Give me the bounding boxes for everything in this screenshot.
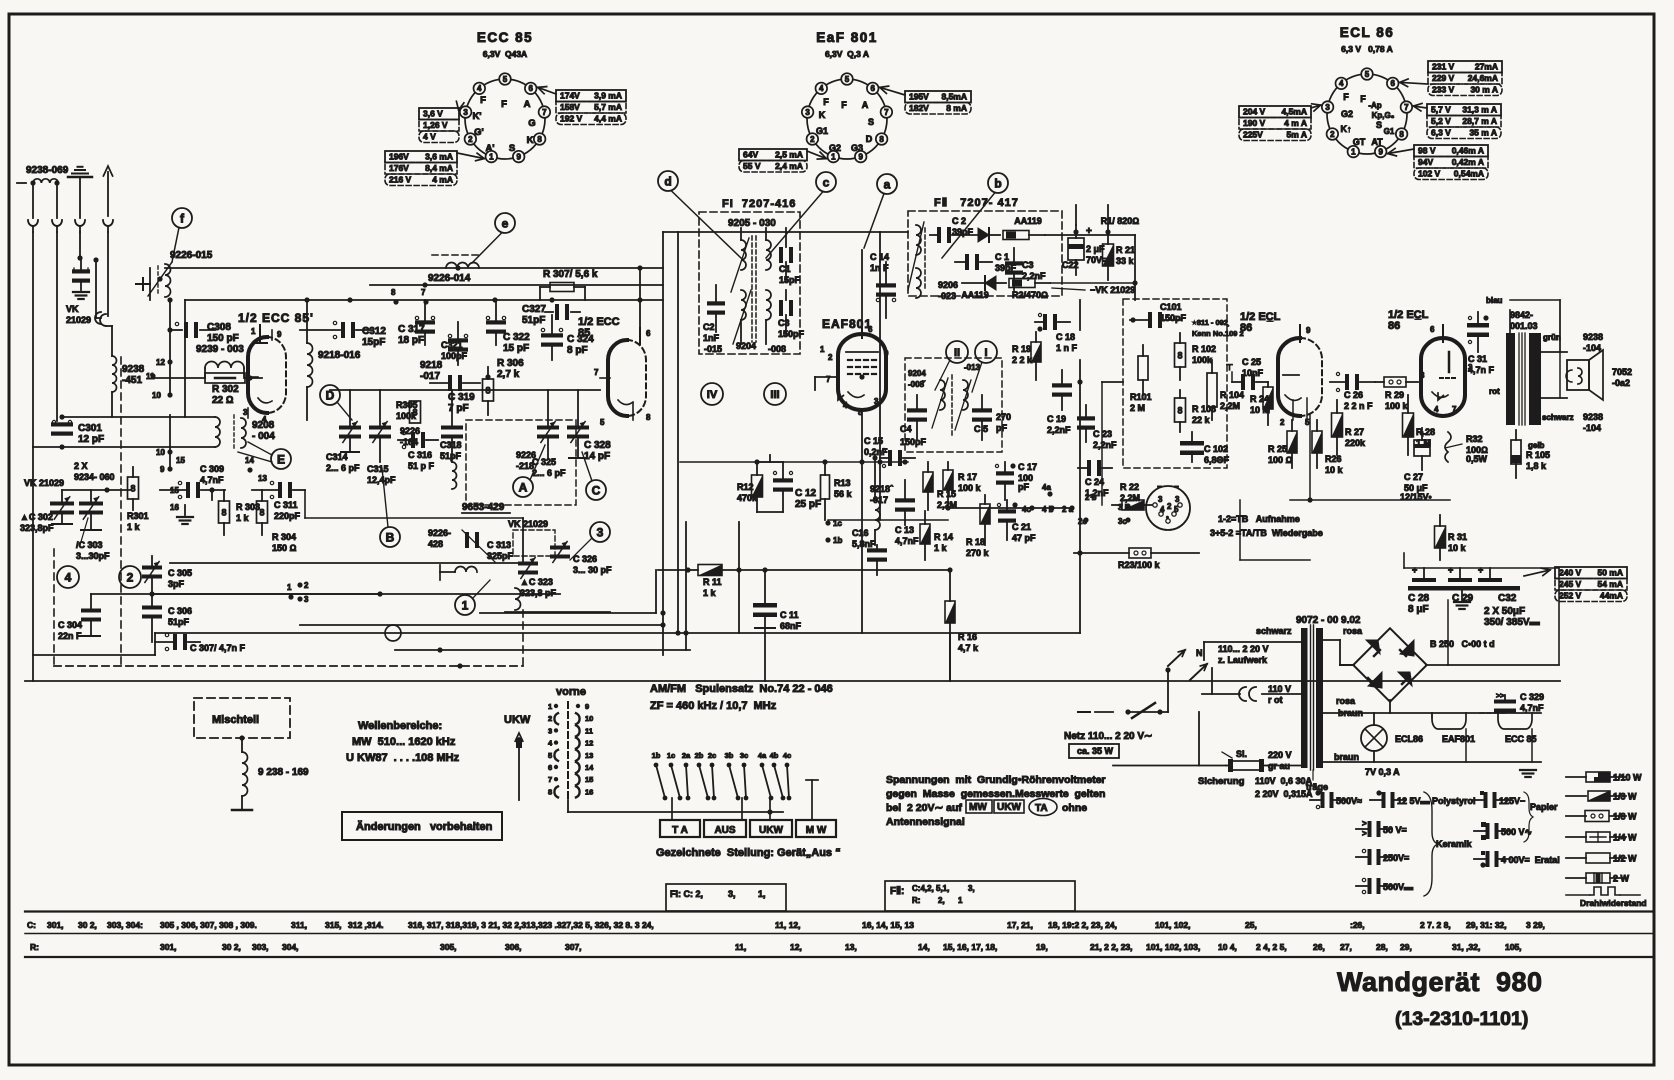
svg-text:110 V: 110 V [1268, 684, 1291, 694]
resistor R23 [1129, 548, 1151, 558]
svg-text:6,3 V: 6,3 V [1431, 128, 1451, 138]
svg-text:54 mA: 54 mA [1597, 579, 1623, 589]
svg-text:8: 8 [1177, 350, 1182, 360]
resistor R104 [1207, 373, 1217, 407]
svg-text:44mA: 44mA [1600, 591, 1623, 601]
svg-text:1 k: 1 k [127, 522, 141, 532]
svg-text:2 X: 2 X [74, 461, 88, 471]
svg-text:R 11: R 11 [703, 577, 722, 587]
wire fi top [663, 231, 880, 233]
svg-text:2,7 k: 2,7 k [497, 369, 520, 380]
tube half ECC85 a [248, 337, 267, 413]
IF transformer FII box [908, 211, 1062, 296]
svg-text:4: 4 [1339, 79, 1344, 88]
legend cap 500Vminus [1486, 823, 1490, 839]
capacitor C12 [773, 478, 793, 482]
ferrite rod coil [215, 417, 220, 447]
svg-text:9 238 - 169: 9 238 - 169 [258, 767, 309, 778]
wire audio in [1102, 381, 1123, 383]
arrow to pin 3 [1311, 105, 1321, 108]
svg-text:350/ 385V▬: 350/ 385V▬ [1484, 617, 1540, 628]
svg-text:-451: -451 [122, 375, 142, 386]
svg-text:AA119: AA119 [1014, 216, 1042, 226]
legend res 1/8W [1566, 815, 1586, 817]
svg-text:7: 7 [884, 108, 889, 117]
svg-text:6: 6 [868, 325, 873, 334]
voltage table ECL86 right top [1428, 61, 1502, 73]
svg-text:11: 11 [585, 726, 593, 735]
capacitor C3 fii [1005, 261, 1023, 265]
svg-text:8: 8 [259, 507, 264, 517]
svg-text:C 307/ 4,7n F: C 307/ 4,7n F [190, 643, 246, 653]
svg-text:4: 4 [65, 570, 72, 584]
svg-text:9: 9 [858, 152, 863, 161]
svg-text:-164: -164 [400, 437, 418, 447]
svg-text:R:: R: [912, 896, 920, 905]
capacitor C3 fi [779, 300, 783, 316]
svg-text:AT: AT [1371, 137, 1383, 147]
svg-text:6: 6 [528, 84, 533, 93]
resistor R101 [1138, 356, 1148, 380]
svg-text:ECC 85: ECC 85 [477, 30, 533, 45]
capacitor C321 [448, 338, 468, 342]
svg-text:ZF = 460 kHz / 10,7 MHz: ZF = 460 kHz / 10,7 MHz [650, 700, 777, 712]
svg-text:Wandgerät 980: Wandgerät 980 [1337, 967, 1543, 997]
svg-text:312 ,314.: 312 ,314. [348, 920, 383, 930]
svg-text:3b: 3b [725, 751, 734, 760]
svg-text:C 11: C 11 [780, 610, 799, 620]
earth symbol [68, 176, 92, 179]
svg-text:11, 12,: 11, 12, [775, 920, 801, 930]
svg-text:174V: 174V [560, 91, 580, 101]
svg-text:9226: 9226 [400, 426, 420, 436]
svg-text:Gezeichnete Stellung: Gerät„A: Gezeichnete Stellung: Gerät„Aus “ [656, 847, 841, 859]
svg-text:21029: 21029 [66, 315, 91, 325]
svg-text:6: 6 [548, 763, 552, 772]
capacitor C4 [907, 408, 927, 412]
trimmer C328 [567, 426, 589, 430]
svg-text:C32: C32 [1498, 593, 1517, 604]
svg-text:C 24: C 24 [1085, 477, 1104, 487]
button AUS [704, 820, 746, 837]
arrow to pin 3 [458, 108, 460, 110]
capacitor C102 [1180, 441, 1204, 446]
svg-text:C16: C16 [852, 528, 869, 538]
svg-text:rosa: rosa [1343, 626, 1363, 636]
svg-text:R 14: R 14 [934, 532, 953, 542]
svg-text:C 14: C 14 [870, 252, 889, 262]
wire bus 2 [370, 284, 663, 286]
legend res 1/3W [1566, 795, 1586, 797]
svg-text:A: A [524, 99, 531, 110]
svg-text:pF: pF [996, 423, 1007, 433]
svg-text:6: 6 [1430, 325, 1435, 334]
capacitor C319 [448, 375, 452, 391]
svg-text:R 307/ 5,6 k: R 307/ 5,6 k [543, 269, 598, 280]
svg-text:C 304: C 304 [58, 620, 82, 630]
svg-text:9234- 060: 9234- 060 [74, 472, 115, 482]
svg-text:(13-2310-1101): (13-2310-1101) [1395, 1008, 1528, 1030]
voltage table ECL86 right mid [1427, 104, 1501, 116]
svg-text:AA119: AA119 [961, 290, 989, 300]
node C [586, 480, 606, 500]
svg-text:B: B [386, 530, 395, 544]
svg-text:10 k: 10 k [1448, 543, 1467, 553]
svg-text:C 28: C 28 [1408, 593, 1430, 604]
svg-text:G2: G2 [829, 143, 841, 153]
svg-text:8: 8 [1177, 405, 1182, 415]
svg-text:C3: C3 [1022, 260, 1034, 270]
svg-text:1: 1 [1351, 147, 1356, 156]
svg-text:C:: C: [27, 920, 36, 930]
svg-text:AUS: AUS [714, 825, 735, 836]
svg-text:bei 2 20V∼ auf: bei 2 20V∼ auf [886, 802, 962, 814]
dashed box tuner [53, 549, 55, 666]
coil 9208-004 [247, 408, 249, 418]
svg-text:9226-014: 9226-014 [428, 273, 471, 284]
svg-text:C301: C301 [78, 423, 102, 434]
svg-text:3: 3 [1158, 495, 1163, 504]
svg-text:15 pF: 15 pF [503, 343, 529, 354]
svg-text:C101: C101 [1160, 302, 1182, 312]
capacitor C317 [415, 320, 435, 324]
svg-text:5,2 V: 5,2 V [1431, 116, 1451, 126]
B+ rail [1404, 567, 1559, 569]
svg-text:ECL 86: ECL 86 [1340, 25, 1395, 40]
svg-text:5: 5 [845, 75, 850, 84]
svg-text:0,46m A: 0,46m A [1452, 146, 1484, 156]
svg-text:2,2M: 2,2M [1120, 493, 1140, 503]
svg-text:47 pF: 47 pF [1012, 533, 1036, 543]
svg-text:1b: 1b [833, 536, 842, 545]
node b [988, 173, 1008, 193]
svg-text:86: 86 [1388, 320, 1400, 332]
svg-text:3: 3 [805, 108, 810, 117]
svg-text:F: F [823, 97, 829, 107]
svg-text:R 22: R 22 [1120, 482, 1139, 492]
svg-text:2... 6 pF: 2... 6 pF [326, 463, 360, 473]
svg-text:blau: blau [1486, 296, 1503, 305]
wire top bus [165, 267, 663, 269]
capacitor C27 [1414, 440, 1430, 456]
svg-text:1: 1 [831, 152, 836, 161]
svg-text:1,8 k: 1,8 k [1526, 461, 1547, 471]
svg-text:5: 5 [503, 75, 508, 84]
svg-text:1,2nF: 1,2nF [1085, 488, 1109, 498]
svg-text:A: A [862, 100, 869, 110]
audio bottom wires [1290, 499, 1450, 501]
resistor R19 [1031, 342, 1041, 362]
svg-text:C 311: C 311 [274, 500, 298, 510]
svg-text:G1: G1 [1384, 127, 1395, 136]
svg-text:C3: C3 [778, 318, 790, 328]
capacitor C301 [51, 422, 73, 426]
svg-text:R 27: R 27 [1345, 427, 1364, 437]
node 3 circ [590, 522, 610, 542]
coil mw1 [455, 567, 477, 573]
svg-text:250V=: 250V= [1383, 853, 1409, 863]
svg-text:18 pF: 18 pF [398, 335, 424, 346]
wire 880 down [879, 262, 881, 520]
svg-text:24,6mA: 24,6mA [1468, 73, 1498, 83]
svg-text:rot: rot [1489, 387, 1500, 396]
svg-text:9072 - 00 9.02: 9072 - 00 9.02 [1296, 615, 1361, 626]
voltage table ECC85 left [419, 108, 459, 120]
svg-text:R101: R101 [1130, 392, 1152, 402]
resistor R2 470 [1009, 279, 1035, 288]
svg-text:˃˃: ˃˃ [1496, 693, 1504, 700]
svg-text:6,8ʘF: 6,8ʘF [1204, 455, 1230, 465]
svg-text:220k: 220k [1345, 438, 1366, 448]
svg-text:G: G [528, 118, 535, 129]
svg-text:-Ap: -Ap [1368, 101, 1381, 110]
svg-text:51 p F: 51 p F [408, 461, 435, 471]
svg-text:150pF: 150pF [778, 329, 805, 339]
svg-text:3: 3 [597, 525, 604, 539]
dashed bus 666 [54, 665, 523, 667]
svg-text:7: 7 [542, 108, 547, 117]
svg-text:100 Ω: 100 Ω [1268, 455, 1293, 465]
svg-text:5m A: 5m A [1287, 130, 1307, 140]
button MW [796, 820, 836, 837]
capacitor C322 [486, 320, 506, 324]
svg-text:9239 - 003: 9239 - 003 [196, 344, 244, 355]
svg-text:R 21: R 21 [1116, 245, 1135, 255]
node A [513, 477, 533, 497]
svg-text:N: N [1196, 648, 1203, 658]
voltage table ECC85 right [556, 90, 626, 102]
tube EAF801 [838, 334, 886, 410]
switch stems [671, 798, 673, 820]
svg-text:8: 8 [391, 288, 396, 297]
wire col 57 [56, 232, 58, 421]
svg-text:2: 2 [810, 135, 815, 144]
svg-text:-017: -017 [420, 371, 440, 382]
wire right v [1559, 300, 1561, 398]
svg-text:8 pF: 8 pF [567, 345, 588, 356]
svg-text:2,5 mA: 2,5 mA [775, 150, 803, 160]
svg-text:1: 1 [251, 327, 256, 336]
svg-text:13: 13 [258, 474, 267, 483]
FI primary coil [741, 240, 746, 270]
svg-text:27mA: 27mA [1475, 62, 1498, 72]
svg-text:I: I [984, 347, 987, 359]
svg-text:K↑: K↑ [1341, 124, 1352, 134]
svg-text:101, 102, 103,: 101, 102, 103, [1146, 942, 1200, 952]
resistor R305 [410, 401, 421, 423]
svg-text:301,: 301, [160, 942, 177, 952]
wire v 947 [949, 633, 951, 681]
svg-text:C 12: C 12 [795, 488, 817, 499]
svg-text:4,7nF: 4,7nF [895, 536, 919, 546]
svg-text:192 V: 192 V [560, 114, 583, 124]
node c [816, 172, 836, 192]
svg-text:4a: 4a [758, 751, 767, 760]
voltage table mains [1555, 567, 1627, 579]
svg-text:9218ˆ: 9218ˆ [870, 484, 894, 494]
svg-text:C22: C22 [1062, 260, 1079, 270]
speaker [1567, 360, 1589, 390]
svg-text:C 328: C 328 [584, 440, 611, 451]
svg-text:1c: 1c [667, 751, 675, 760]
capacitor C26 [1345, 374, 1349, 390]
svg-text:1 n F: 1 n F [1056, 343, 1078, 353]
capacitor C307 [173, 634, 177, 650]
svg-text:195V: 195V [909, 92, 929, 102]
svg-text:G3: G3 [851, 143, 863, 153]
wire col 80 [79, 232, 81, 258]
svg-text:-104: -104 [1583, 423, 1601, 433]
svg-text:10: 10 [152, 391, 161, 400]
svg-text:grün: grün [1543, 333, 1561, 342]
svg-text:⊤: ⊤ [1226, 363, 1233, 372]
wire v 739 [738, 522, 740, 633]
svg-text:220 V: 220 V [1268, 750, 1292, 760]
capacitor C19 [1052, 383, 1072, 387]
svg-text:2: 2 [1330, 130, 1335, 139]
svg-text:2,: 2, [938, 896, 945, 905]
svg-text:51pF: 51pF [522, 315, 545, 326]
svg-text:270: 270 [996, 412, 1011, 422]
svg-text:4 V: 4 V [423, 132, 436, 142]
wire fii top [880, 231, 908, 233]
svg-text:F: F [501, 99, 507, 110]
svg-text:303, 304:: 303, 304: [107, 920, 143, 930]
svg-text:100 k: 100 k [958, 483, 982, 493]
resistor R24 [1263, 387, 1273, 409]
legend cap 50V [1368, 821, 1372, 837]
capacitor C327 [555, 304, 559, 320]
heater EAF801 [1432, 713, 1466, 729]
svg-text:5,7 mA: 5,7 mA [594, 102, 622, 112]
svg-text:C 2: C 2 [952, 216, 966, 226]
svg-text:rosa: rosa [1336, 696, 1356, 706]
legend res 1/2W [1566, 857, 1586, 859]
svg-text:5,8nF: 5,8nF [852, 539, 876, 549]
DIN socket [1146, 486, 1190, 530]
svg-text:R 306: R 306 [497, 358, 524, 369]
capacitor C324 [541, 333, 563, 337]
svg-text:150 pF: 150 pF [207, 333, 239, 344]
svg-text:F: F [480, 95, 486, 106]
svg-text:3... 30 pF: 3... 30 pF [573, 565, 612, 575]
svg-text:31,3 m A: 31,3 m A [1462, 105, 1497, 115]
svg-text:D: D [326, 388, 335, 402]
svg-text:6,3 V 0,78 A: 6,3 V 0,78 A [1341, 44, 1393, 54]
svg-text:1-2=TB Aufnahme: 1-2=TB Aufnahme [1218, 514, 1300, 524]
resistor R18 [980, 504, 990, 524]
capacitor C312 [341, 322, 345, 338]
svg-text:8: 8 [879, 135, 884, 144]
svg-text:8: 8 [221, 507, 226, 517]
svg-text:102 V: 102 V [1418, 169, 1441, 179]
svg-text:12,: 12, [790, 942, 802, 952]
svg-text:100pF: 100pF [441, 351, 468, 361]
svg-text:7052: 7052 [1612, 367, 1632, 377]
svg-text:R 302: R 302 [212, 384, 239, 395]
svg-text:C 1: C 1 [995, 252, 1009, 262]
svg-text:311,: 311, [291, 920, 307, 930]
svg-text:IV: IV [707, 389, 718, 401]
capacitor C318 [441, 426, 463, 430]
gang capacitor C302 [50, 502, 74, 506]
svg-text:196V: 196V [389, 152, 409, 162]
svg-text:R 28: R 28 [1416, 427, 1435, 437]
svg-text:- 004: - 004 [252, 431, 275, 442]
svg-text:F: F [1343, 92, 1349, 102]
svg-text:4,7nF: 4,7nF [1520, 703, 1544, 713]
resistor R12 [752, 475, 763, 497]
svg-text:13: 13 [585, 751, 593, 760]
svg-text:-015: -015 [704, 344, 722, 354]
capacitor C22 [1068, 238, 1084, 260]
svg-text:D: D [866, 134, 873, 144]
wire audio bus [1101, 382, 1103, 505]
svg-text:4a: 4a [1042, 483, 1051, 492]
svg-text:z. Laufwerk: z. Laufwerk [1218, 655, 1268, 665]
svg-text:28,: 28, [1376, 942, 1388, 952]
svg-text:9226: 9226 [516, 450, 536, 460]
mid box lines [170, 562, 523, 564]
svg-text:7: 7 [421, 288, 426, 297]
svg-text:2a: 2a [682, 751, 691, 760]
node a [877, 174, 897, 194]
svg-text:35 m A: 35 m A [1469, 128, 1497, 138]
svg-text:C 17: C 17 [1018, 462, 1037, 472]
svg-text:gelb: gelb [1528, 441, 1545, 450]
svg-text:Antennensignal: Antennensignal [886, 816, 965, 828]
svg-text:22 k: 22 k [1192, 415, 1211, 425]
svg-text:d: d [664, 174, 671, 188]
svg-text:C 25: C 25 [1242, 357, 1261, 367]
svg-text:1/2 W: 1/2 W [1613, 854, 1637, 864]
svg-text:Änderungen vorbehalten: Änderungen vorbehalten [356, 820, 493, 833]
svg-text:FI: C: 2,: FI: C: 2, [670, 889, 703, 899]
svg-text:15: 15 [170, 486, 179, 495]
svg-text:303,: 303, [252, 942, 269, 952]
svg-text:9218: 9218 [420, 360, 443, 371]
grid bus [330, 389, 600, 391]
output transformer [1506, 333, 1515, 425]
voltage table ECL86 left [1239, 106, 1311, 118]
svg-text:C 18: C 18 [1056, 332, 1075, 342]
wire fi bus right [879, 232, 881, 262]
coil 9218-016 [306, 300, 308, 343]
svg-text:4,4 mA: 4,4 mA [594, 114, 622, 124]
svg-text:13,: 13, [845, 942, 857, 952]
node II [946, 341, 968, 363]
svg-text:19,: 19, [1036, 942, 1048, 952]
node 4 circ [57, 566, 79, 588]
wire bus 613 [480, 612, 656, 614]
svg-text:7: 7 [594, 368, 599, 377]
resistor R25 [1287, 431, 1297, 453]
svg-text:1 k: 1 k [236, 513, 250, 523]
resistor R15 [923, 472, 933, 492]
svg-text:C 102: C 102 [1204, 444, 1228, 454]
wire bus 625 [300, 624, 663, 626]
legend wirewound [1566, 894, 1590, 896]
svg-text:94V: 94V [1418, 157, 1433, 167]
svg-text:FⅡ 7207- 417: FⅡ 7207- 417 [934, 197, 1019, 209]
svg-text:FⅡ:: FⅡ: [890, 886, 904, 897]
svg-text:ohne: ohne [1062, 802, 1087, 814]
capacitor C2 fii [937, 227, 941, 243]
svg-text:1 k: 1 k [934, 543, 948, 553]
svg-text:21, 2 2, 23,: 21, 2 2, 23, [1090, 942, 1133, 952]
capacitor C101 [1148, 312, 1152, 328]
svg-text:100k: 100k [1192, 355, 1213, 365]
